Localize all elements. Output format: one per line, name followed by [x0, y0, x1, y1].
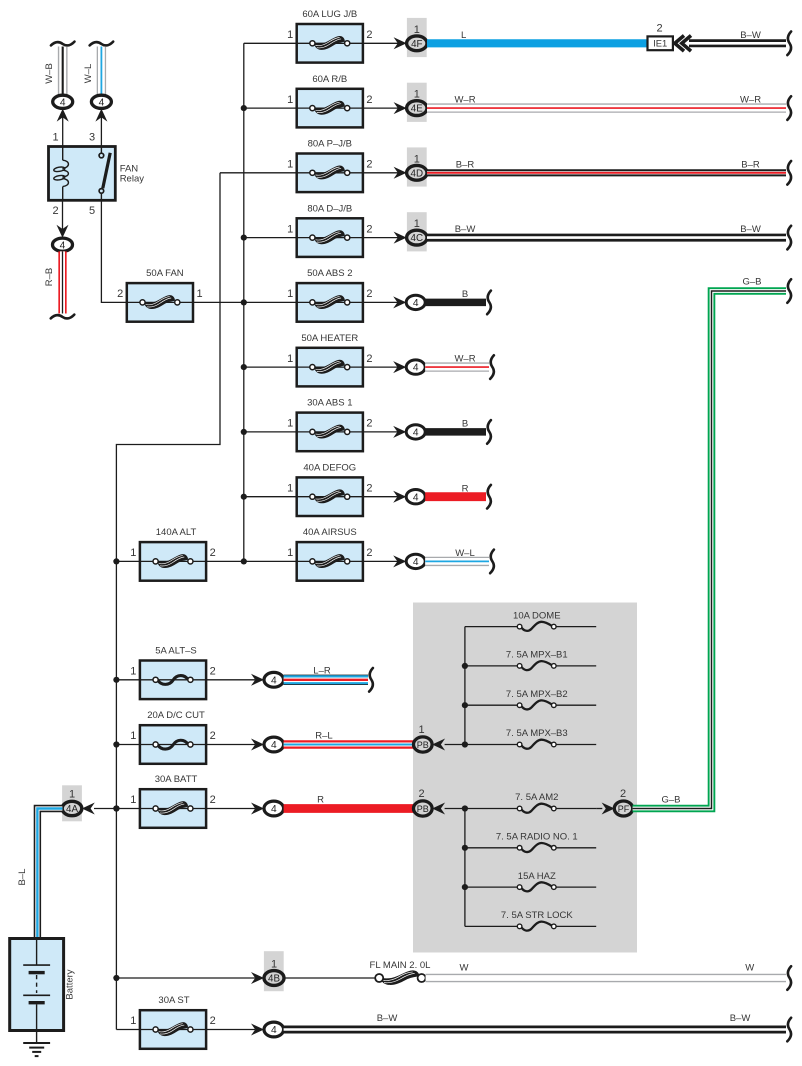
connector PB pin 2: [414, 788, 446, 816]
junction block panel: [413, 603, 637, 953]
wire fuse output: [363, 107, 398, 109]
svg-text:40A DEFOG: 40A DEFOG: [303, 462, 356, 473]
svg-text:15A HAZ: 15A HAZ: [518, 871, 556, 882]
svg-text:4: 4: [60, 97, 66, 108]
connector 4 (R-B): [53, 225, 73, 252]
wire PB2 to fuse block: [445, 808, 465, 810]
wire W-B pigtail: [44, 42, 74, 95]
svg-text:60A R/B: 60A R/B: [312, 74, 347, 85]
svg-text:4: 4: [60, 240, 66, 251]
wire W: [426, 963, 791, 990]
junction: [113, 558, 119, 564]
connector 4 (row 5): [393, 360, 425, 374]
wire bus to 40A AIRSUS: [244, 560, 297, 562]
junction: [462, 702, 468, 708]
wire 4B to FL MAIN: [284, 977, 376, 979]
svg-text:1: 1: [287, 223, 293, 235]
fuse 80A D–J/B: [287, 203, 372, 257]
fuse 15A HAZ: [465, 871, 596, 892]
fuse 30A BATT: [130, 774, 215, 828]
junction: [462, 845, 468, 851]
wire W-L pigtail: [83, 42, 113, 95]
wire AM2 to PF: [596, 808, 602, 810]
fuse 60A R/B: [287, 74, 372, 128]
junction: [462, 741, 468, 747]
junction: [241, 105, 247, 111]
svg-text:4A: 4A: [66, 804, 78, 815]
svg-text:7. 5A STR LOCK: 7. 5A STR LOCK: [501, 910, 573, 921]
wire G-B: [633, 277, 792, 809]
svg-text:1: 1: [287, 418, 293, 430]
svg-text:1: 1: [197, 288, 203, 300]
svg-text:20A D/C CUT: 20A D/C CUT: [147, 710, 205, 721]
svg-text:4: 4: [413, 557, 419, 568]
svg-text:1: 1: [130, 794, 136, 806]
wire 30A ST output: [206, 1029, 255, 1031]
wire L-R pigtail: [284, 666, 373, 692]
fuse 20A D/C CUT: [130, 710, 215, 764]
svg-text:30A BATT: 30A BATT: [155, 774, 198, 785]
connector 4D: [394, 147, 427, 186]
junction: [241, 429, 247, 435]
wire 5A ALT–S output: [206, 679, 255, 681]
svg-text:W–R: W–R: [740, 95, 761, 106]
svg-text:1: 1: [414, 89, 420, 101]
wire W-R (row 2): [427, 95, 791, 120]
svg-text:1: 1: [287, 159, 293, 171]
wire B-W (bottom): [284, 1013, 791, 1042]
svg-text:W–R: W–R: [454, 95, 475, 106]
junction: [113, 975, 119, 981]
svg-text:30A ABS 1: 30A ABS 1: [307, 398, 352, 409]
svg-text:7. 5A MPX–B3: 7. 5A MPX–B3: [506, 728, 568, 739]
svg-text:2: 2: [210, 730, 216, 742]
junction: [113, 805, 119, 811]
svg-text:1: 1: [287, 547, 293, 559]
svg-text:50A FAN: 50A FAN: [146, 268, 184, 279]
wire fuse output: [363, 431, 398, 433]
wire 50A FAN to bus: [193, 301, 244, 303]
svg-text:1: 1: [130, 547, 136, 559]
wire fuse output: [363, 42, 398, 44]
wire 140A ALT to bus: [206, 560, 244, 562]
svg-text:W: W: [745, 963, 754, 974]
svg-text:B–W: B–W: [455, 224, 476, 235]
svg-text:4C: 4C: [411, 233, 424, 244]
svg-text:2: 2: [366, 418, 372, 430]
fuse 5A ALT–S: [130, 646, 215, 700]
wire relay pin 2: [62, 200, 64, 234]
svg-text:7. 5A MPX–B1: 7. 5A MPX–B1: [506, 650, 568, 661]
svg-text:2: 2: [117, 288, 123, 300]
wire fuse output: [363, 172, 398, 174]
svg-text:R: R: [317, 795, 324, 806]
svg-text:PB: PB: [417, 804, 429, 814]
svg-text:W–R: W–R: [454, 354, 475, 365]
svg-text:PB: PB: [417, 740, 429, 750]
svg-text:140A ALT: 140A ALT: [156, 527, 197, 538]
wire fuse output: [363, 560, 398, 562]
wire bus to 50A ABS 2: [244, 301, 297, 303]
wire B-R: [427, 159, 791, 184]
svg-text:R: R: [462, 483, 469, 494]
svg-text:7. 5A MPX–B2: 7. 5A MPX–B2: [506, 689, 568, 700]
wire PB1 to fuse block: [445, 744, 465, 746]
wire 30A BATT output: [206, 808, 255, 810]
svg-text:2: 2: [366, 482, 372, 494]
fuse 50A HEATER: [287, 333, 372, 387]
wire bus to 50A HEATER: [244, 366, 297, 368]
connector 4 (row 7): [393, 490, 425, 504]
connector 4 (W-B): [53, 95, 73, 121]
svg-text:2: 2: [656, 22, 662, 34]
svg-text:5A ALT–S: 5A ALT–S: [155, 646, 197, 657]
svg-text:2: 2: [210, 547, 216, 559]
svg-text:B–W: B–W: [740, 30, 761, 41]
junction: [113, 677, 119, 683]
junction: [462, 884, 468, 890]
fuse 40A DEFOG: [287, 462, 372, 516]
wire bus to 30A BATT: [116, 808, 139, 810]
wire B pigtail: [425, 289, 491, 314]
svg-text:B–W: B–W: [377, 1013, 398, 1024]
junction: [241, 494, 247, 500]
fuse 30A ABS 1: [287, 398, 372, 452]
relay FAN: [49, 132, 145, 218]
svg-text:Relay: Relay: [120, 174, 145, 185]
connector 4 (row 8): [393, 554, 425, 568]
svg-text:L: L: [461, 30, 466, 41]
junction: [241, 558, 247, 564]
svg-text:1: 1: [69, 788, 75, 800]
svg-text:W–L: W–L: [83, 64, 94, 84]
fuse 7. 5A STR LOCK: [465, 910, 596, 931]
wire bus to 60A LUG J/B: [244, 42, 297, 44]
svg-text:4: 4: [413, 298, 419, 309]
svg-text:1: 1: [414, 153, 420, 165]
connector 4 (20A D/C CUT): [251, 737, 284, 752]
fuse 40A AIRSUS: [287, 527, 372, 581]
svg-text:R–L: R–L: [315, 731, 332, 742]
svg-text:1: 1: [130, 730, 136, 742]
svg-text:50A HEATER: 50A HEATER: [301, 333, 358, 344]
svg-text:5: 5: [89, 205, 95, 217]
junction: [241, 364, 247, 370]
svg-text:2: 2: [418, 788, 424, 800]
wire bus to 30A ST: [116, 1029, 139, 1031]
svg-text:B–W: B–W: [740, 224, 761, 235]
svg-text:1: 1: [271, 959, 277, 971]
svg-text:R–B: R–B: [44, 268, 55, 286]
wire fuse output: [363, 366, 398, 368]
connector 4 (30A BATT): [251, 801, 284, 816]
connector 4 (30A ST): [251, 1022, 284, 1037]
fuse 7. 5A MPX–B1: [465, 650, 596, 671]
wire bus to 40A DEFOG: [244, 496, 297, 498]
connector PF: [602, 788, 633, 816]
wire bus to 80A D–J/B: [244, 237, 297, 239]
connector 4C: [394, 212, 427, 251]
wire relay pin 3: [100, 113, 102, 147]
svg-text:1: 1: [418, 724, 424, 736]
connector 4 (W-L): [91, 95, 111, 121]
svg-text:60A LUG J/B: 60A LUG J/B: [302, 9, 357, 20]
fuse 80A P–J/B: [287, 139, 372, 193]
connector 4E: [394, 83, 427, 122]
svg-text:2: 2: [366, 288, 372, 300]
wire R-B pigtail: [44, 251, 74, 318]
fusible link FL MAIN 2.0L: [370, 960, 431, 985]
svg-text:1: 1: [414, 218, 420, 230]
svg-text:B–W: B–W: [730, 1013, 751, 1024]
connector 4 (row 6): [393, 425, 425, 439]
battery: [10, 939, 76, 1031]
svg-text:1: 1: [130, 666, 136, 678]
wire B-W (row 1): [689, 30, 791, 55]
junction: [241, 299, 247, 305]
svg-text:4: 4: [271, 675, 277, 686]
wire fuse output: [363, 496, 398, 498]
wire B-W (row 4): [427, 224, 791, 249]
svg-text:1: 1: [287, 353, 293, 365]
wire main bus: [243, 43, 245, 561]
fuse 50A ABS 2: [287, 268, 372, 322]
wire bus to 60A R/B: [244, 107, 297, 109]
fuse 140A ALT: [130, 527, 215, 581]
fuse 7. 5A MPX–B3: [465, 728, 596, 749]
fuse 7. 5A MPX–B2: [465, 689, 596, 710]
svg-text:B–R: B–R: [741, 159, 760, 170]
svg-text:2: 2: [366, 159, 372, 171]
svg-text:2: 2: [366, 223, 372, 235]
wire R-L: [284, 731, 414, 745]
svg-text:4B: 4B: [268, 974, 280, 985]
wire 20A D/C CUT output: [206, 744, 255, 746]
ground: [23, 1031, 50, 1057]
wire R pigtail: [425, 483, 491, 508]
svg-text:2: 2: [210, 1015, 216, 1027]
wire bus to 5A ALT–S: [116, 679, 139, 681]
svg-text:L–R: L–R: [313, 666, 331, 677]
svg-text:4D: 4D: [411, 168, 424, 179]
wire bus to 4A: [94, 808, 116, 810]
svg-text:1: 1: [287, 94, 293, 106]
svg-text:4F: 4F: [411, 39, 422, 50]
junction: [113, 805, 119, 811]
svg-text:B–R: B–R: [456, 159, 475, 170]
svg-text:W: W: [460, 963, 469, 974]
fuse 7. 5A RADIO NO. 1: [465, 832, 596, 853]
wire bus to 140A ALT: [116, 560, 139, 562]
svg-text:2: 2: [52, 205, 58, 217]
svg-text:2: 2: [210, 794, 216, 806]
wire bus to 80A P-J/B: [220, 172, 297, 174]
wire fuse block bus (lower): [464, 809, 466, 927]
connector 4A: [62, 785, 95, 821]
svg-text:1: 1: [414, 24, 420, 36]
svg-text:B: B: [462, 289, 468, 300]
wire bus to 4B: [116, 977, 255, 979]
svg-text:10A DOME: 10A DOME: [513, 610, 561, 621]
fuse 10A DOME: [465, 610, 596, 631]
svg-text:4: 4: [413, 428, 419, 439]
fuse 60A LUG J/B: [287, 9, 372, 63]
wire relay pin 1: [62, 113, 64, 147]
fuse 50A FAN: [117, 268, 202, 322]
svg-text:G–B: G–B: [661, 795, 680, 806]
svg-text:W–B: W–B: [44, 63, 55, 84]
svg-text:30A ST: 30A ST: [158, 995, 189, 1006]
wire bus branch P-J/B: [116, 173, 220, 1030]
svg-text:PF: PF: [618, 804, 630, 814]
junction: [241, 235, 247, 241]
svg-text:1: 1: [287, 29, 293, 41]
wire fuse output: [363, 301, 398, 303]
svg-text:Battery: Battery: [65, 969, 76, 999]
svg-text:IE1: IE1: [653, 38, 667, 49]
svg-text:1: 1: [287, 482, 293, 494]
wire bus to 30A ABS 1: [244, 431, 297, 433]
wire L: [427, 30, 648, 43]
wire W–L pigtail: [425, 548, 494, 573]
svg-text:4: 4: [271, 740, 277, 751]
wire fuse output: [363, 237, 398, 239]
wire B-L: [17, 809, 63, 939]
junction: [462, 805, 468, 811]
svg-text:4: 4: [271, 804, 277, 815]
svg-text:G–B: G–B: [742, 277, 761, 288]
svg-text:2: 2: [366, 29, 372, 41]
wire relay pin 5 to 50A FAN: [101, 200, 127, 302]
fuse 7. 5A AM2: [465, 792, 596, 813]
svg-text:B–L: B–L: [17, 869, 28, 886]
connector 4B: [251, 951, 284, 991]
svg-text:4: 4: [271, 1025, 277, 1036]
connector 4F: [394, 18, 427, 57]
junction: [462, 663, 468, 669]
wire fuse block bus (upper): [464, 627, 466, 745]
svg-text:B: B: [462, 419, 468, 430]
svg-text:80A D–J/B: 80A D–J/B: [307, 203, 352, 214]
svg-text:2: 2: [366, 94, 372, 106]
svg-text:1: 1: [287, 288, 293, 300]
fuse 30A ST: [130, 995, 215, 1049]
svg-text:FL MAIN 2. 0L: FL MAIN 2. 0L: [370, 960, 431, 971]
wire R: [284, 795, 414, 809]
svg-text:1: 1: [130, 1015, 136, 1027]
svg-text:2: 2: [366, 353, 372, 365]
svg-text:3: 3: [89, 132, 95, 144]
svg-text:2: 2: [366, 547, 372, 559]
connector PB pin 1: [414, 724, 446, 752]
svg-text:7. 5A AM2: 7. 5A AM2: [515, 792, 558, 803]
svg-text:80A P–J/B: 80A P–J/B: [308, 139, 352, 150]
svg-text:2: 2: [210, 666, 216, 678]
connector 4 (row 4): [393, 295, 425, 309]
connector IE1: [648, 22, 692, 51]
svg-text:2: 2: [620, 788, 626, 800]
svg-text:4E: 4E: [411, 104, 423, 115]
svg-text:4: 4: [99, 97, 105, 108]
wire bus to 20A D/C CUT: [116, 744, 139, 746]
svg-text:1: 1: [52, 132, 58, 144]
svg-text:7. 5A RADIO NO. 1: 7. 5A RADIO NO. 1: [496, 832, 578, 843]
svg-text:4: 4: [413, 363, 419, 374]
wire B pigtail: [425, 419, 491, 444]
svg-text:W–L: W–L: [455, 548, 475, 559]
svg-text:40A AIRSUS: 40A AIRSUS: [303, 527, 357, 538]
wire W–R pigtail: [425, 354, 494, 379]
svg-text:50A ABS 2: 50A ABS 2: [307, 268, 352, 279]
junction: [113, 741, 119, 747]
connector 4 (5A ALT–S): [251, 672, 284, 687]
svg-text:4: 4: [413, 492, 419, 503]
